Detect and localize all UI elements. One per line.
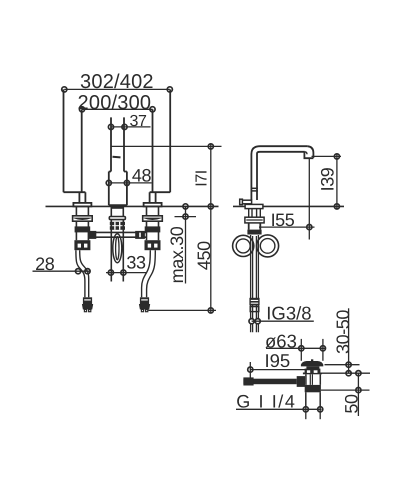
dim 302/402 line xyxy=(64,88,170,90)
circle 450 bottom xyxy=(208,308,213,313)
ext line o63 left vertical xyxy=(300,339,302,361)
circle 28 left xyxy=(76,269,81,274)
dim o63 line xyxy=(266,347,326,349)
dim 171/450 vertical line xyxy=(210,144,212,314)
dim IG3/8 underline xyxy=(252,320,314,322)
side dark block xyxy=(247,230,261,235)
hoses down from loops xyxy=(251,235,259,298)
drain pipe nut xyxy=(297,376,305,387)
spout ribbed nut xyxy=(110,222,125,225)
side hose fitting xyxy=(249,298,259,306)
circle 171 bottom 450 top xyxy=(208,204,213,209)
side escutcheon xyxy=(245,204,263,208)
circle IG38 left xyxy=(249,319,254,324)
drain nut flange xyxy=(305,369,321,373)
circle 155 xyxy=(307,225,312,230)
side nut flange xyxy=(245,217,264,223)
circle G114 left xyxy=(303,407,308,412)
circle 302/402 right xyxy=(167,87,172,92)
circle 200/300 left xyxy=(79,107,84,112)
crossbar right fitting xyxy=(135,231,145,239)
svg-text:48: 48 xyxy=(132,166,152,186)
dim 50 vertical xyxy=(357,373,359,416)
side shank xyxy=(249,209,261,218)
circle 33 right xyxy=(121,270,126,275)
right handle body xyxy=(150,89,171,192)
ext line hose ends to 450 xyxy=(149,309,217,311)
svg-text:ø63: ø63 xyxy=(265,330,297,351)
drain flange dome xyxy=(301,361,323,366)
circle 139 top xyxy=(334,154,339,159)
right hose xyxy=(142,250,151,297)
svg-text:200/300: 200/300 xyxy=(78,92,152,114)
dim 33 line xyxy=(106,272,147,274)
dim 28 line xyxy=(33,270,91,272)
spout outlet xyxy=(307,146,313,158)
left handle neck xyxy=(79,192,85,203)
circle 48 right xyxy=(124,180,129,185)
circle max30 top xyxy=(183,204,188,209)
right valve body xyxy=(147,221,159,227)
dim 48 line xyxy=(109,182,152,184)
spout dark collar below deck xyxy=(112,206,123,208)
svg-text:37: 37 xyxy=(130,113,147,130)
svg-text:max.30: max.30 xyxy=(167,226,187,283)
left valve dark band xyxy=(75,227,89,231)
spout hose loop outer xyxy=(113,234,122,263)
spout base bottom edge xyxy=(109,204,127,206)
svg-text:I95: I95 xyxy=(265,350,291,371)
ext line outlet down to 155 xyxy=(308,159,310,240)
circle 50 top xyxy=(356,371,361,376)
hose loop right xyxy=(257,235,279,257)
circle 37 left xyxy=(108,124,113,129)
circle 33 left xyxy=(108,270,113,275)
dim 155 line xyxy=(259,226,315,228)
right hose fitting xyxy=(140,297,149,304)
ext line 30-50 top xyxy=(325,364,360,366)
ext line spout top to 171 xyxy=(111,145,222,147)
drain dark band xyxy=(305,385,321,392)
spout washer flange xyxy=(109,217,125,220)
circle 171 top xyxy=(208,144,213,149)
svg-text:450: 450 xyxy=(194,241,214,270)
circle 195 xyxy=(248,367,253,372)
lever xyxy=(240,200,251,204)
svg-text:IG3/8: IG3/8 xyxy=(266,303,311,324)
crossbar left fitting xyxy=(88,231,96,239)
side body xyxy=(249,223,261,230)
circle 37 right xyxy=(122,124,127,129)
dim max30 vertical line xyxy=(185,206,187,283)
spout tube front xyxy=(111,117,124,171)
right valve compression nut xyxy=(145,240,161,250)
spout tube side: riser and top arm xyxy=(251,146,307,188)
ext line max30 bottom xyxy=(175,216,197,218)
circle 302/402 left xyxy=(62,87,67,92)
circle 28 right xyxy=(85,269,90,274)
deck line front view xyxy=(46,205,219,207)
left hose fitting xyxy=(83,297,92,304)
dim 30-50 vertical xyxy=(348,308,350,373)
svg-text:302/402: 302/402 xyxy=(80,71,154,93)
drain pipe xyxy=(243,379,296,385)
drain stem xyxy=(306,366,319,369)
dim 200/300 line xyxy=(82,108,153,110)
right escutcheon xyxy=(144,203,162,207)
hose ends to IG3/8 xyxy=(251,306,259,319)
circle 48 left xyxy=(106,180,111,185)
circle 30-50 bottom xyxy=(346,371,351,376)
left valve body xyxy=(76,221,88,227)
right valve shank xyxy=(147,206,159,215)
ext line G circle right vertical xyxy=(319,406,321,419)
spout hose loop inner xyxy=(116,237,119,260)
right valve dark band xyxy=(146,227,160,231)
drain flange nub xyxy=(311,359,313,361)
svg-text:I39: I39 xyxy=(318,167,338,191)
spout aerator tick xyxy=(113,156,121,159)
crossbar pipe xyxy=(88,232,146,237)
right handle neck xyxy=(150,192,156,203)
circle 50 bottom xyxy=(356,388,361,393)
left valve compression nut xyxy=(74,240,90,250)
tube lower xyxy=(251,188,257,200)
spout tailpiece xyxy=(111,206,123,281)
svg-text:28: 28 xyxy=(35,254,55,274)
left escutcheon xyxy=(73,203,91,207)
ext tick at 195 circle xyxy=(249,362,251,379)
circle IG38 right xyxy=(255,319,260,324)
right valve nut flange xyxy=(143,216,163,221)
circle o63 right xyxy=(320,346,325,351)
circle o63 left xyxy=(299,346,304,351)
deck line side view xyxy=(233,205,344,207)
circle 30-50 top xyxy=(346,362,351,367)
svg-text:I7I: I7I xyxy=(194,170,211,187)
ext line 30-50 bottom / 50 top xyxy=(322,372,371,374)
svg-text:G I I/4: G I I/4 xyxy=(236,391,296,411)
svg-text:33: 33 xyxy=(126,253,146,273)
hose loop left xyxy=(233,235,254,256)
left valve shank xyxy=(76,206,88,215)
svg-text:30-50: 30-50 xyxy=(333,310,353,354)
left valve nut flange xyxy=(73,216,93,221)
svg-text:I55: I55 xyxy=(271,210,295,230)
left valve lower body xyxy=(76,232,88,241)
ext line outlet to 139 xyxy=(312,155,342,157)
right valve lower body xyxy=(147,232,159,241)
ext line G circle left vertical xyxy=(305,406,307,419)
svg-text:50: 50 xyxy=(342,394,362,414)
spout base widening xyxy=(109,172,127,206)
left handle body xyxy=(64,89,86,192)
dim 195 line xyxy=(250,369,310,371)
circle 139 bottom xyxy=(334,204,339,209)
left hose xyxy=(76,250,85,297)
drain pipe tip xyxy=(243,377,253,385)
circle G114 right xyxy=(318,407,323,412)
dim G 1 1/4 underline xyxy=(236,408,322,410)
ext line 50 bottom xyxy=(321,389,370,391)
dim 37 line xyxy=(111,126,151,128)
dim 139 vertical xyxy=(336,154,338,210)
swivel joint ticks xyxy=(251,187,258,189)
drain lower body xyxy=(306,392,320,406)
circle 200/300 right xyxy=(150,107,155,112)
ext line o63 right vertical xyxy=(322,339,324,361)
circle max30 bottom xyxy=(183,214,188,219)
drain body xyxy=(306,374,320,385)
